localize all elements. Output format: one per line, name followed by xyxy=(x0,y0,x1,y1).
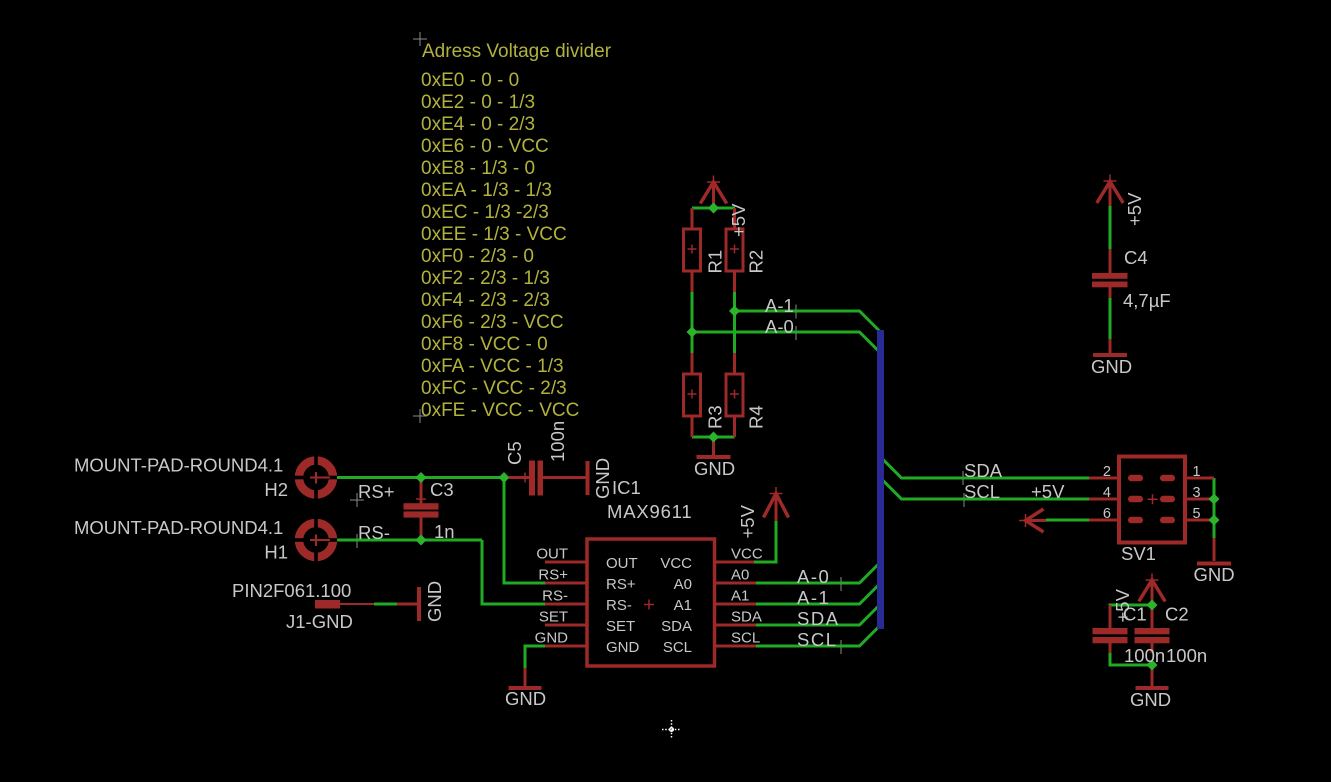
svg-text:R4: R4 xyxy=(746,405,767,429)
svg-text:OUT: OUT xyxy=(536,546,568,563)
svg-text:SCL: SCL xyxy=(731,630,760,647)
svg-text:0xE6 - 0 - VCC: 0xE6 - 0 - VCC xyxy=(421,136,549,157)
svg-text:0xF6 - 2/3 - VCC: 0xF6 - 2/3 - VCC xyxy=(421,312,564,333)
svg-text:GND: GND xyxy=(1130,689,1171,710)
svg-text:+5V: +5V xyxy=(1112,588,1133,622)
svg-text:+5V: +5V xyxy=(1124,192,1145,226)
svg-text:5: 5 xyxy=(1193,506,1201,522)
svg-text:RS-: RS- xyxy=(542,588,568,605)
svg-text:RS-: RS- xyxy=(358,522,390,543)
svg-text:GND: GND xyxy=(606,639,640,656)
svg-text:PIN2F061.100: PIN2F061.100 xyxy=(232,580,351,601)
svg-text:SDA: SDA xyxy=(731,609,762,626)
svg-text:J1-GND: J1-GND xyxy=(286,611,353,632)
svg-text:A1: A1 xyxy=(674,597,692,614)
svg-text:GND: GND xyxy=(1091,356,1132,377)
svg-text:1n: 1n xyxy=(434,521,455,542)
svg-text:0xE2 - 0 - 1/3: 0xE2 - 0 - 1/3 xyxy=(421,92,535,113)
svg-text:SDA: SDA xyxy=(964,460,1003,481)
svg-text:0xEC - 1/3 -2/3: 0xEC - 1/3 -2/3 xyxy=(421,202,549,223)
svg-text:0xF4 - 2/3 - 2/3: 0xF4 - 2/3 - 2/3 xyxy=(421,290,550,311)
svg-text:MAX9611: MAX9611 xyxy=(607,501,692,522)
svg-text:A-0: A-0 xyxy=(797,566,830,587)
svg-text:0xEA - 1/3 - 1/3: 0xEA - 1/3 - 1/3 xyxy=(421,180,552,201)
svg-text:RS+: RS+ xyxy=(606,576,636,593)
svg-text:0xFC - VCC - 2/3: 0xFC - VCC - 2/3 xyxy=(421,378,567,399)
svg-text:1: 1 xyxy=(1193,464,1201,480)
svg-text:+5V: +5V xyxy=(728,203,749,237)
svg-text:100n: 100n xyxy=(1124,645,1165,666)
svg-text:C4: C4 xyxy=(1124,247,1148,268)
svg-text:A-1: A-1 xyxy=(797,587,830,608)
svg-text:SET: SET xyxy=(539,609,568,626)
svg-text:0xEE - 1/3 - VCC: 0xEE - 1/3 - VCC xyxy=(421,224,567,245)
svg-text:SCL: SCL xyxy=(964,481,1000,502)
svg-text:R1: R1 xyxy=(705,250,726,274)
svg-text:R2: R2 xyxy=(746,250,767,274)
svg-text:0xE4 - 0 - 2/3: 0xE4 - 0 - 2/3 xyxy=(421,114,535,135)
svg-text:H2: H2 xyxy=(264,479,288,500)
svg-text:C2: C2 xyxy=(1165,604,1189,625)
svg-text:OUT: OUT xyxy=(606,555,638,572)
svg-text:R3: R3 xyxy=(705,405,726,429)
svg-text:RS+: RS+ xyxy=(358,481,395,502)
svg-text:SDA: SDA xyxy=(661,618,692,635)
svg-text:0xE0 - 0 - 0: 0xE0 - 0 - 0 xyxy=(421,70,519,91)
svg-text:A0: A0 xyxy=(674,576,692,593)
svg-text:0xF2 - 2/3 - 1/3: 0xF2 - 2/3 - 1/3 xyxy=(421,268,550,289)
svg-text:A0: A0 xyxy=(731,567,749,584)
svg-text:SDA: SDA xyxy=(797,608,840,629)
svg-text:SCL: SCL xyxy=(797,629,838,650)
svg-text:0xFA - VCC - 1/3: 0xFA - VCC - 1/3 xyxy=(421,356,564,377)
svg-text:SCL: SCL xyxy=(663,639,692,656)
svg-text:+5V: +5V xyxy=(1031,481,1065,502)
svg-text:SET: SET xyxy=(606,618,635,635)
svg-text:RS-: RS- xyxy=(606,597,632,614)
svg-text:0xE8 - 1/3 - 0: 0xE8 - 1/3 - 0 xyxy=(421,158,535,179)
svg-text:GND: GND xyxy=(592,458,613,499)
svg-text:A-1: A-1 xyxy=(765,295,794,316)
svg-text:100n: 100n xyxy=(547,421,568,462)
svg-text:C3: C3 xyxy=(430,479,454,500)
svg-text:VCC: VCC xyxy=(731,546,763,563)
svg-text:A-0: A-0 xyxy=(765,316,794,337)
svg-text:GND: GND xyxy=(694,458,735,479)
svg-text:GND: GND xyxy=(535,630,569,647)
svg-text:100n: 100n xyxy=(1166,645,1207,666)
svg-text:Adress Voltage divider: Adress Voltage divider xyxy=(422,41,612,62)
svg-text:IC1: IC1 xyxy=(612,477,641,498)
svg-text:6: 6 xyxy=(1103,506,1111,522)
svg-text:0xF8 - VCC - 0: 0xF8 - VCC - 0 xyxy=(421,334,548,355)
svg-text:+5V: +5V xyxy=(737,504,758,538)
svg-text:4: 4 xyxy=(1103,485,1111,501)
svg-text:A1: A1 xyxy=(731,588,749,605)
svg-text:3: 3 xyxy=(1193,485,1201,501)
svg-text:H1: H1 xyxy=(264,542,288,563)
svg-text:0xFE - VCC - VCC: 0xFE - VCC - VCC xyxy=(421,400,579,421)
svg-text:GND: GND xyxy=(1194,564,1235,585)
svg-text:GND: GND xyxy=(505,688,546,709)
svg-text:MOUNT-PAD-ROUND4.1: MOUNT-PAD-ROUND4.1 xyxy=(74,517,283,538)
svg-text:GND: GND xyxy=(424,581,445,622)
svg-text:VCC: VCC xyxy=(660,555,692,572)
svg-text:SV1: SV1 xyxy=(1121,543,1156,564)
svg-text:MOUNT-PAD-ROUND4.1: MOUNT-PAD-ROUND4.1 xyxy=(74,455,283,476)
svg-text:RS+: RS+ xyxy=(538,567,568,584)
svg-text:2: 2 xyxy=(1103,464,1111,480)
svg-text:C5: C5 xyxy=(504,441,525,465)
svg-text:4,7µF: 4,7µF xyxy=(1123,290,1171,311)
svg-text:0xF0 - 2/3 - 0: 0xF0 - 2/3 - 0 xyxy=(421,246,534,267)
